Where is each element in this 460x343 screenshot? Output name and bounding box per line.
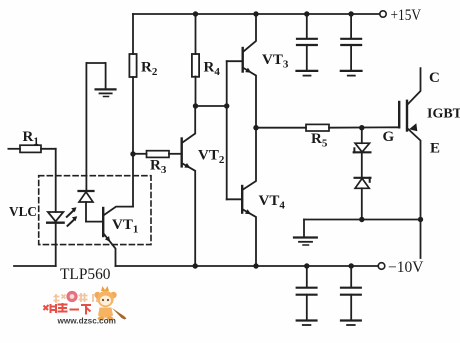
capacitor C2 [350,14,352,38]
svg-text:R3: R3 [150,158,167,177]
node mid-left [193,103,198,108]
node rail-VT2e [193,263,198,268]
node rail-C4 [349,263,354,268]
LED arrows [67,211,74,217]
svg-text:R1: R1 [23,129,39,148]
faded orange text [54,293,98,303]
ground of C2 [341,70,362,72]
svg-text:R5: R5 [311,131,328,150]
node rail-C3 [304,263,309,268]
svg-text:+15V: +15V [391,7,422,24]
svg-text:VT1: VT1 [112,217,138,236]
svg-text:G: G [383,129,395,145]
svg-text:VLC: VLC [9,205,37,220]
LED VLC [48,212,63,221]
node rail-R4 [193,11,198,16]
svg-text:R2: R2 [141,60,158,79]
svg-text:R4: R4 [204,60,221,79]
wire mid horizontal [196,105,227,107]
resistor R1 [8,148,20,150]
ground of C1 [297,70,318,72]
wire VT3 base down [226,61,228,106]
terminal -10V [378,263,385,270]
wire zener ground horizontal [304,219,421,221]
diode VD1 [85,63,87,191]
resistor R2 [132,14,134,54]
wire to R5 [256,127,306,129]
wire E continuation [420,220,422,259]
optocoupler TLP560 dashed box [39,176,151,245]
node VT3e-VT4c [253,125,258,130]
svg-text:VT2: VT2 [198,148,225,167]
svg-text:IGBT: IGBT [427,107,460,122]
node rail-C1 [304,11,309,16]
resistor R4 [195,14,197,54]
IGBT [398,102,400,127]
zener diode VS2 [355,177,371,179]
svg-text:TLP560: TLP560 [60,266,111,283]
svg-text:www.dzsc.com: www.dzsc.com [57,317,116,326]
watermark logo [44,286,127,326]
node rail-VT4e [253,263,258,268]
node mid-right [224,103,229,108]
wire bottom -10V rail [116,265,379,267]
ground of C3 [297,319,317,321]
ground of C4 [341,319,361,321]
svg-text:−10V: −10V [388,259,424,276]
mascot [94,286,126,321]
wire +15V top rail [133,13,380,15]
transistor VT3 [241,48,243,72]
node R3/R2/VT1 [130,151,135,156]
phototransistor VT1 [102,208,104,236]
node gate [359,125,364,130]
svg-text:VT3: VT3 [262,52,289,71]
ground top-left [86,62,105,64]
wire LED anode [55,149,57,212]
node rail-C2 [348,11,353,16]
transistor VT4 [241,186,243,213]
ground near zener [303,220,305,238]
resistor R3 [133,153,147,155]
node zener-ground [359,217,364,222]
wire to VT4 base [226,106,228,199]
svg-text:VT4: VT4 [259,193,286,212]
node rail-VT3 [253,11,258,16]
capacitor C1 [306,14,308,38]
zener diode VS1 [361,128,363,144]
wire input return to LED cathode [14,265,56,267]
transistor VT2 [180,139,182,167]
red disc [66,291,77,302]
capacitor C3 [306,266,308,287]
svg-text:E: E [430,141,440,157]
capacitor C4 [350,266,352,287]
node E line [418,217,423,222]
red text 维库一下 [44,303,92,315]
svg-text:C: C [429,70,440,86]
resistor R5 [306,124,329,131]
terminal +15V [380,11,386,17]
